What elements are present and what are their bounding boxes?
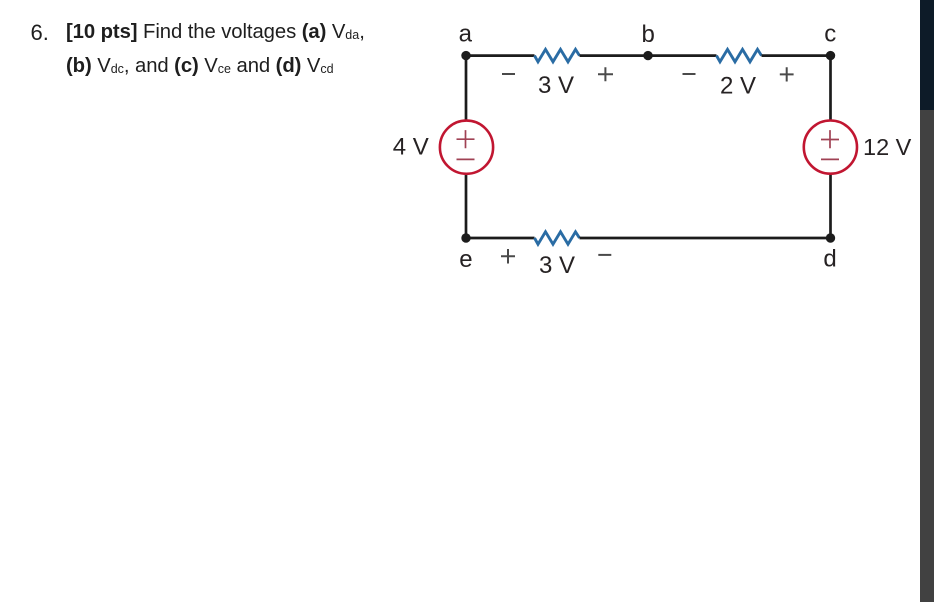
svg-text:3 V: 3 V: [539, 252, 575, 279]
polarity plus mark (left of R3): [501, 249, 515, 264]
dark gray sidebar strip (right edge): [920, 110, 934, 602]
svg-text:d: d: [823, 246, 836, 273]
dark navy sidebar strip (top right): [920, 0, 934, 110]
polarity plus mark (right of R1): [598, 67, 613, 81]
node a junction dot: [461, 51, 470, 60]
svg-text:12 V: 12 V: [863, 134, 912, 160]
svg-text:c: c: [824, 20, 836, 47]
node c junction dot: [826, 51, 835, 60]
svg-text:2 V: 2 V: [720, 72, 756, 99]
node b junction dot: [643, 51, 652, 60]
svg-text:e: e: [459, 246, 472, 273]
wire: resistor R2 to node c (top right horizontal): [762, 54, 831, 57]
polarity plus mark (right of R2): [780, 67, 794, 81]
wire: resistor R1 to node b and on to resistor R2 (top middle horizontal): [580, 54, 717, 57]
voltage source V2 plus polarity mark: [821, 130, 839, 148]
svg-text:a: a: [459, 20, 473, 47]
svg-text:3 V: 3 V: [538, 72, 574, 99]
wire: node c down to voltage source V2 (right vertical upper): [829, 56, 832, 121]
resistor R1 (3 V, between nodes a and b): [535, 49, 580, 61]
voltage source V1 plus polarity mark: [457, 130, 475, 148]
wire: node a to resistor R1 (top left horizontal): [466, 54, 535, 57]
problem statement text: [66, 17, 411, 84]
wire: voltage source V1 down to node e (left vertical lower): [465, 174, 468, 238]
voltage source V1 minus polarity mark: [457, 158, 475, 160]
voltage source V2 (12 V, right branch) circle: [804, 121, 857, 174]
wire: node a down to voltage source V1 (left vertical upper): [465, 56, 468, 121]
wire: node e to resistor R3 (bottom left horizontal): [466, 237, 535, 240]
voltage source V1 (4 V, left branch) circle: [440, 121, 493, 174]
wire: voltage source V2 down to node d (right vertical lower): [829, 174, 832, 238]
node d junction dot: [826, 233, 835, 242]
svg-text:b: b: [642, 21, 655, 48]
node e junction dot: [461, 233, 470, 242]
resistor R3 (3 V, between nodes e and d): [535, 232, 580, 244]
polarity minus mark (left of R1): [502, 73, 515, 75]
resistor R2 (2 V, between nodes b and c): [717, 49, 762, 61]
svg-text:4 V: 4 V: [393, 133, 429, 160]
problem number 6: [31, 20, 49, 46]
polarity minus mark (left of R2): [683, 73, 696, 75]
wire: resistor R3 to node d (bottom right horizontal): [580, 237, 831, 240]
voltage source V2 minus polarity mark: [821, 158, 839, 160]
polarity minus mark (right of R3): [598, 254, 611, 256]
